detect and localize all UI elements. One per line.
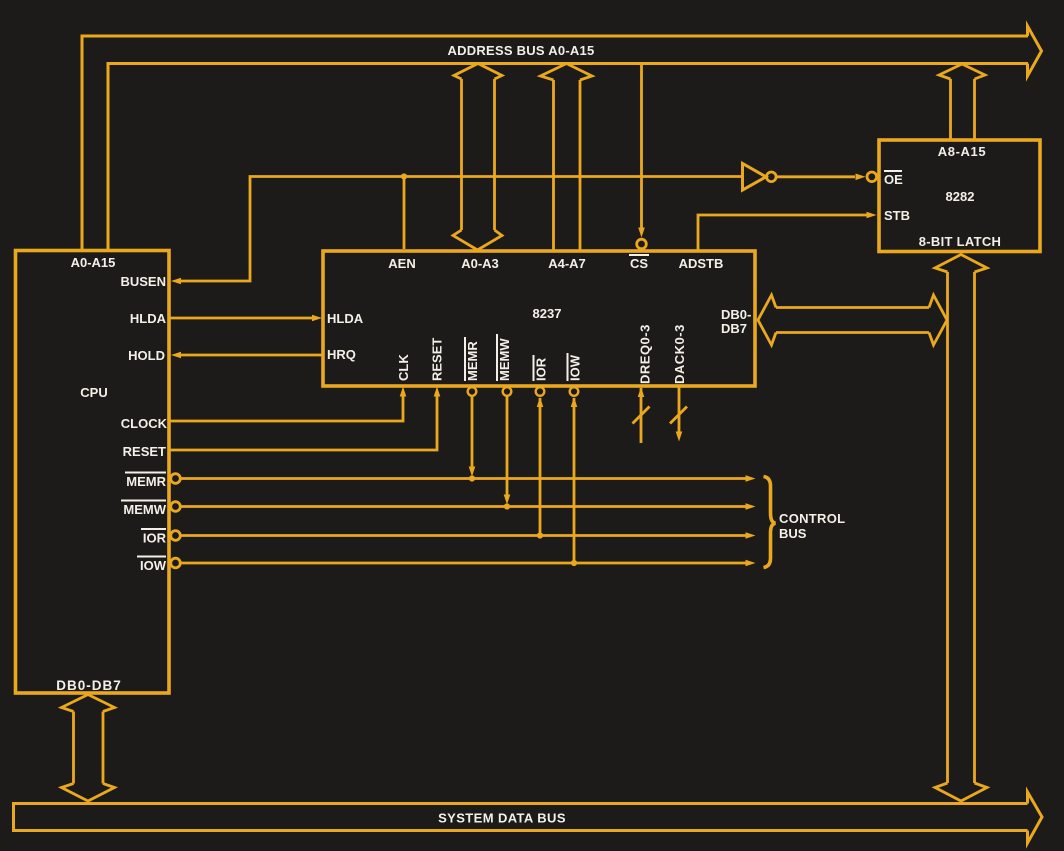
arrowhead control IOR	[746, 532, 756, 539]
label CPU	[80, 385, 107, 400]
wire AEN drop to 8237	[403, 177, 406, 250]
label 8237 pin MEMR (rotated, overline bar)	[465, 337, 480, 381]
svg-text:AEN: AEN	[388, 256, 415, 271]
bus-width slash DACK0-3	[670, 407, 687, 424]
label CPU pin CLOCK	[121, 416, 168, 431]
svg-text:SYSTEM DATA BUS: SYSTEM DATA BUS	[438, 811, 566, 826]
arrowhead 8237 MEMR down	[469, 467, 476, 477]
bus ADDRESS BUS line 1 (top) with left drop to CPU A0-A15	[82, 36, 1028, 250]
wire 8237 MEMR drop to control bus	[471, 396, 474, 469]
svg-text:ADDRESS BUS A0-A15: ADDRESS BUS A0-A15	[447, 43, 594, 58]
svg-text:ADSTB: ADSTB	[679, 256, 724, 271]
label 8282 pin STB	[884, 208, 910, 223]
label 8237 pin A0-A3	[461, 256, 499, 271]
svg-text:IOW: IOW	[568, 354, 583, 381]
arrowhead CLK into 8237	[400, 387, 407, 397]
svg-text:A8-A15: A8-A15	[938, 144, 986, 159]
svg-text:A0-A3: A0-A3	[461, 256, 499, 271]
label 8237 pin DREQ0-3 (rotated)	[638, 324, 653, 384]
svg-text:HOLD: HOLD	[128, 348, 165, 363]
label 8237 pin A4-A7	[548, 256, 586, 271]
arrowhead CS down	[638, 228, 645, 238]
svg-text:A4-A7: A4-A7	[548, 256, 586, 271]
label CONTROL BUS	[779, 511, 845, 541]
svg-text:BUS: BUS	[779, 526, 807, 541]
wire 8237 IOW drop to control bus	[573, 398, 576, 563]
wire control bus MEMR line	[181, 477, 749, 480]
svg-text:HRQ: HRQ	[327, 347, 356, 362]
bus ADDRESS BUS line 2 (bottom) with left drop to CPU A0-A15	[108, 64, 1028, 251]
label 8237 pin DB0-DB7 (two lines)	[721, 307, 751, 336]
arrowhead RESET into 8237	[434, 387, 441, 397]
pin circle CPU MEMR	[171, 474, 181, 484]
label CPU pin BUSEN	[120, 274, 166, 289]
label CPU pin MEMW (with overline)	[121, 501, 167, 518]
svg-text:A0-A15: A0-A15	[71, 255, 116, 270]
node junction MEMR	[469, 475, 475, 481]
label CPU pin DB0-DB7	[56, 678, 122, 693]
label 8237 pin DACK0-3 (rotated)	[672, 324, 687, 384]
label 8237 pin CS (with overline)	[629, 255, 649, 271]
wire control bus MEMW line	[181, 505, 749, 508]
svg-text:MEMW: MEMW	[123, 502, 166, 517]
bus arrow data bus riser into system data bus (down)	[935, 783, 987, 801]
arrowhead HLDA into 8237	[312, 315, 322, 322]
label CPU pin RESET	[123, 444, 166, 459]
label CPU pin MEMR (with overline)	[125, 473, 167, 490]
svg-text:8237: 8237	[533, 306, 562, 321]
wire ADSTB to 8282 STB	[698, 215, 868, 251]
svg-text:MEMR: MEMR	[465, 341, 480, 381]
label 8282 pin A8-A15	[938, 144, 986, 159]
bus SYSTEM DATA BUS right arrowhead	[1028, 792, 1043, 843]
wire 8237 IOR drop to control bus	[539, 398, 542, 536]
brace CONTROL BUS	[764, 477, 776, 568]
pin circle CPU IOR	[171, 531, 181, 541]
wire 8237 DREQ0-3 stub	[640, 388, 643, 443]
wire HRQ (8237 to CPU HOLD)	[177, 354, 323, 357]
label ADDRESS BUS A0-A15	[447, 43, 594, 58]
arrowhead into OE bubble	[856, 174, 866, 181]
svg-text:DB7: DB7	[721, 321, 747, 336]
arrowhead control MEMR	[746, 475, 756, 482]
pin circle CPU MEMW	[171, 502, 181, 512]
svg-text:CPU: CPU	[80, 385, 107, 400]
label 8237 pin IOR (rotated, overline bar)	[534, 355, 549, 381]
wire inverter output to 8282 OE	[777, 175, 856, 178]
node junction MEMW	[504, 503, 510, 509]
svg-text:HLDA: HLDA	[130, 311, 167, 326]
svg-text:DACK0-3: DACK0-3	[672, 324, 687, 384]
pin circle CPU IOW	[171, 558, 181, 568]
svg-text:CLK: CLK	[396, 354, 411, 381]
node junction IOW	[571, 560, 577, 566]
label 8237 pin HLDA	[327, 311, 364, 326]
svg-text:HLDA: HLDA	[327, 311, 364, 326]
label 8282	[946, 189, 975, 204]
label CPU pin A0-A15	[71, 255, 116, 270]
node junction IOR	[537, 532, 543, 538]
label CPU pin HOLD	[128, 348, 165, 363]
svg-text:IOR: IOR	[143, 531, 167, 546]
inverter U3 (triangle)	[743, 164, 767, 191]
bus arrow A0-A3 (8237 to address bus, double-headed)	[453, 64, 502, 251]
arrowhead DACK0-3 down	[676, 432, 683, 442]
svg-text:STB: STB	[884, 208, 910, 223]
svg-text:CONTROL: CONTROL	[779, 511, 845, 526]
bus arrow 8282 A8-A15 to address bus (up)	[939, 64, 985, 139]
wire control bus IOW line	[181, 562, 749, 565]
wire HLDA (CPU to 8237)	[169, 317, 314, 320]
label 8237 pin CLK (rotated)	[396, 354, 411, 381]
wire CLOCK (CPU to 8237 CLK)	[169, 392, 403, 421]
pin bubble 8282 OE	[867, 172, 877, 182]
wire CS drop from address bus	[640, 64, 643, 229]
pin circle 8237 MEMR	[468, 387, 477, 396]
svg-text:OE: OE	[884, 172, 903, 187]
wire RESET (CPU to 8237 RESET)	[169, 392, 437, 450]
svg-text:IOW: IOW	[140, 558, 167, 573]
svg-text:DB0-DB7: DB0-DB7	[56, 678, 122, 693]
wire control bus IOR line	[181, 534, 749, 537]
bus SYSTEM DATA BUS (two lines, closed left end)	[14, 804, 1028, 831]
arrowhead control MEMW	[746, 503, 756, 510]
label 8237 pin IOW (rotated, overline bar)	[568, 353, 583, 381]
svg-text:DREQ0-3: DREQ0-3	[638, 324, 653, 384]
svg-text:IOR: IOR	[534, 357, 549, 381]
svg-text:MEMW: MEMW	[497, 338, 512, 381]
pin circle 8237 IOW	[570, 387, 579, 396]
bus arrow data bus riser into 8282 bottom (up) plus vertical bus lines	[935, 255, 987, 784]
svg-text:8-BIT LATCH: 8-BIT LATCH	[919, 234, 1002, 249]
label 8237 pin MEMW (rotated, overline bar)	[497, 334, 512, 381]
label 8237 pin AEN	[388, 256, 415, 271]
label CPU pin IOR (with overline)	[141, 529, 167, 546]
bus-width slash DREQ0-3	[633, 407, 650, 424]
arrowhead BUSEN into CPU	[171, 278, 181, 285]
svg-text:RESET: RESET	[430, 338, 445, 381]
label 8237 pin RESET (rotated)	[430, 338, 445, 381]
label 8282 8-BIT LATCH	[919, 234, 1002, 249]
pin bubble 8237 CS	[637, 239, 647, 249]
svg-text:DB0-: DB0-	[721, 307, 751, 322]
label 8237 pin HRQ	[327, 347, 356, 362]
wire 8237 MEMW drop to control bus	[506, 396, 509, 497]
svg-text:BUSEN: BUSEN	[120, 274, 166, 289]
arrowhead HOLD into CPU	[171, 352, 181, 359]
wire 8237 DACK0-3 stub	[678, 386, 681, 434]
arrowhead 8237 IOR up	[537, 397, 544, 407]
wire BUSEN to inverter input (via vertical riser)	[176, 177, 742, 282]
bus arrow 8237 DB0-DB7 to data bus riser (double-headed, horizontal)	[758, 295, 947, 345]
bus arrow CPU DB0-DB7 to system data bus (double-headed, vertical)	[62, 695, 115, 802]
8237 DMA controller block U1	[323, 251, 755, 386]
label CPU pin HLDA	[130, 311, 167, 326]
svg-text:CS: CS	[630, 256, 648, 271]
svg-text:RESET: RESET	[123, 444, 166, 459]
CPU block	[16, 251, 170, 694]
pin circle 8237 MEMW	[503, 387, 512, 396]
svg-text:MEMR: MEMR	[126, 474, 166, 489]
arrowhead STB into 8282	[867, 212, 877, 219]
svg-text:8282: 8282	[946, 189, 975, 204]
label CPU pin IOW (with overline)	[137, 557, 167, 574]
label SYSTEM DATA BUS	[438, 811, 566, 826]
svg-text:CLOCK: CLOCK	[121, 416, 168, 431]
node junction AEN tap	[401, 173, 407, 179]
arrowhead 8237 MEMW down	[504, 495, 511, 505]
label 8237 pin ADSTB	[679, 256, 724, 271]
arrowhead DREQ0-3 up into 8237	[638, 387, 645, 397]
label 8237	[533, 306, 562, 321]
bus arrow A4-A7 (8237 to address bus, up)	[541, 64, 593, 250]
arrowhead 8237 IOW up	[571, 397, 578, 407]
pin circle 8237 IOR	[536, 387, 545, 396]
arrowhead control IOW	[746, 560, 756, 567]
inverter output bubble	[767, 172, 777, 182]
8282 latch block U2	[879, 140, 1040, 252]
bus ADDRESS BUS right arrowhead	[1028, 26, 1042, 76]
label 8282 pin OE (with overline)	[884, 171, 903, 187]
